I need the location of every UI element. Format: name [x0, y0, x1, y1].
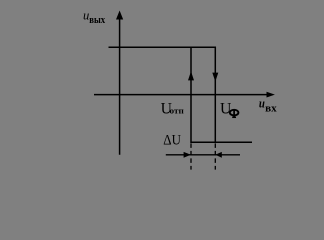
svg-text:U: U	[220, 100, 231, 117]
svg-text:u: u	[259, 97, 265, 111]
svg-text:вх: вх	[265, 104, 277, 115]
svg-text:отп: отп	[170, 106, 184, 116]
svg-text:вых: вых	[89, 15, 105, 26]
svg-text:ΔU: ΔU	[163, 133, 181, 149]
